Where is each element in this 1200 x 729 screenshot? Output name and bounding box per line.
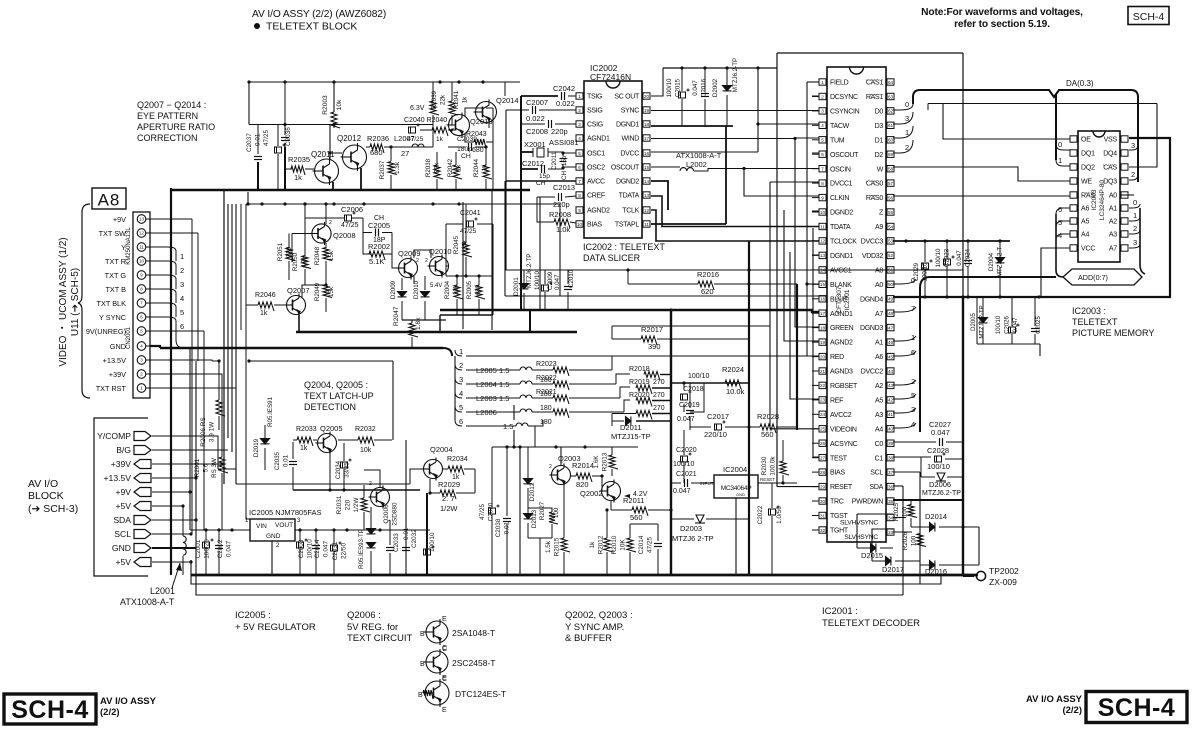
svg-text:2: 2 <box>905 143 909 152</box>
diode D2010 <box>421 292 430 297</box>
svg-text:10: 10 <box>577 222 583 227</box>
wire CLKIN feed <box>744 169 819 197</box>
svg-text:0: 0 <box>905 100 909 109</box>
bus ADD fan 3 <box>893 408 916 413</box>
IC2003 pin DQ4 <box>1121 150 1128 156</box>
svg-text:560: 560 <box>630 513 643 522</box>
IC2001 pin 40 A4 <box>887 426 894 432</box>
svg-text:R2020: R2020 <box>629 392 650 399</box>
svg-text:C2022: C2022 <box>757 505 764 524</box>
wire thick x749 <box>748 241 750 575</box>
IC2001 pin 46 A1 <box>887 339 894 345</box>
IC2003 pin A0 <box>1121 192 1128 198</box>
svg-text:C2034: C2034 <box>335 460 342 479</box>
wire x616 vertical <box>616 374 630 384</box>
svg-text:B: B <box>420 631 425 638</box>
wire rail y447 <box>492 446 638 448</box>
svg-text:SC OUT: SC OUT <box>614 94 640 101</box>
svg-text:2: 2 <box>911 377 915 386</box>
svg-text:TEXT CIRCUIT: TEXT CIRCUIT <box>347 633 412 644</box>
svg-text:44: 44 <box>888 369 894 374</box>
wire Q2014 emitter <box>488 122 490 128</box>
svg-text:A7: A7 <box>1109 246 1117 253</box>
IC2002 pin 13 TDATA <box>643 192 650 198</box>
svg-text:R2047: R2047 <box>393 306 400 326</box>
AV I/O block bracket <box>94 418 148 576</box>
svg-text:C2013: C2013 <box>553 183 575 192</box>
svg-text:1/2W: 1/2W <box>353 497 360 513</box>
svg-text:EYE PATTERN: EYE PATTERN <box>137 111 198 121</box>
svg-text:+5V: +5V <box>115 557 131 567</box>
svg-text:C2020: C2020 <box>676 447 697 454</box>
IC2001 pin 6 OSCOUT <box>819 151 826 157</box>
wire AVCC row <box>506 180 576 182</box>
svg-text:VDD32: VDD32 <box>862 253 883 260</box>
bus DA fan 0 <box>893 104 913 110</box>
svg-text:R2029: R2029 <box>438 480 460 489</box>
bus DA fan DQ3 <box>1129 174 1138 180</box>
svg-text:D2012: D2012 <box>529 482 536 501</box>
capacitor C2023 <box>944 256 955 266</box>
transistor Q2003 <box>550 464 571 487</box>
svg-text:13: 13 <box>139 217 144 222</box>
IC2002 pin 17 WIND <box>643 135 650 141</box>
capacitor C2029 <box>922 260 933 270</box>
svg-text:OSCOUT: OSCOUT <box>611 165 640 172</box>
svg-text:50: 50 <box>888 282 894 287</box>
svg-text:9: 9 <box>578 208 581 213</box>
IC2001 pin 14 AVCC1 <box>819 267 826 273</box>
wire SCL return <box>893 471 920 473</box>
wire +5V to L2001 <box>152 505 183 507</box>
svg-text:R2005: R2005 <box>466 280 473 299</box>
svg-text:AGND2: AGND2 <box>587 208 610 215</box>
svg-text:CSYNCIN: CSYNCIN <box>830 109 860 116</box>
svg-text:D2002: D2002 <box>712 78 719 97</box>
wire x446 q2010 <box>445 224 447 276</box>
svg-text:SCL: SCL <box>114 529 131 539</box>
svg-text:27: 27 <box>401 149 409 158</box>
bus ADD spine left <box>919 288 921 432</box>
IC2003 pin WE <box>1070 178 1077 184</box>
svg-text:22/50: 22/50 <box>341 543 348 559</box>
wire arrows +5V bottom <box>152 561 191 563</box>
svg-text:2: 2 <box>425 258 428 264</box>
svg-text:E: E <box>442 707 447 714</box>
wire conn TXT RST <box>150 387 236 389</box>
wire heavy rail y190 <box>171 189 530 192</box>
wire return y584 <box>191 560 941 584</box>
wire A0 stub <box>1121 194 1134 196</box>
svg-text:6: 6 <box>459 417 463 426</box>
svg-text:TUM: TUM <box>830 137 845 144</box>
IC2003 pin DQ3 <box>1121 178 1128 184</box>
svg-text:17: 17 <box>820 311 826 316</box>
resistor R2046 <box>258 302 274 311</box>
svg-text:1k: 1k <box>589 541 596 549</box>
IC2001 pin 59 D2 <box>887 151 894 157</box>
svg-text:D2001: D2001 <box>513 277 520 296</box>
svg-text:VOUT: VOUT <box>275 522 293 529</box>
IC2003 pin CAS <box>1121 164 1128 170</box>
capacitor C2016 <box>701 94 709 97</box>
svg-text:AV I/O: AV I/O <box>28 478 58 490</box>
transistor Q2004 <box>422 458 443 481</box>
svg-text:48: 48 <box>888 311 894 316</box>
svg-text:SCH-4: SCH-4 <box>1098 694 1176 722</box>
IC2001 pin 42 A5 <box>887 397 894 403</box>
svg-text:1/2W: 1/2W <box>440 504 458 513</box>
svg-text:7: 7 <box>578 179 581 184</box>
capacitor C2001 <box>203 539 214 549</box>
svg-text:R2019: R2019 <box>629 379 650 386</box>
wire connector fan 2 <box>150 261 176 275</box>
wire TSTAPL link <box>651 223 726 225</box>
svg-text:2: 2 <box>1133 224 1137 233</box>
wire bundle x224 <box>223 190 225 484</box>
svg-text:SCL: SCL <box>870 470 883 477</box>
svg-text:390: 390 <box>648 342 661 351</box>
svg-text:+39V: +39V <box>109 370 126 379</box>
svg-text:8: 8 <box>821 181 824 186</box>
svg-text:C2010: C2010 <box>568 269 575 288</box>
wire x246 down <box>246 348 250 519</box>
svg-text:100/10: 100/10 <box>429 532 436 552</box>
wire x493 vertical <box>492 224 494 315</box>
svg-text:C: C <box>442 676 447 683</box>
svg-text:SDA: SDA <box>113 515 131 525</box>
IC2002 pin 18 DGND1 <box>643 121 650 127</box>
svg-text:Q2012: Q2012 <box>337 134 362 143</box>
svg-text:IC2005 NJM7805FAS: IC2005 NJM7805FAS <box>249 508 322 517</box>
wire arrows SDA <box>152 519 196 521</box>
svg-text:R2025: R2025 <box>893 502 900 521</box>
svg-text:60: 60 <box>888 138 894 143</box>
svg-text:+9V: +9V <box>113 215 126 224</box>
wire Q2013 collector <box>465 108 483 117</box>
svg-text:FIELD: FIELD <box>830 80 849 87</box>
wire fan bus vertical <box>176 331 190 348</box>
wire q2002 base <box>601 476 603 491</box>
diode D2004 <box>996 258 1005 263</box>
svg-text:TSIG: TSIG <box>587 94 602 101</box>
diode D2015 <box>871 544 876 553</box>
wire misc pins left <box>812 95 819 97</box>
svg-text:R2033: R2033 <box>296 426 317 433</box>
IC2001 pin 2 DCSYNC <box>819 93 826 99</box>
svg-text:RS 3W: RS 3W <box>211 458 218 478</box>
capacitor C2033b 100/10 <box>424 546 435 556</box>
wire y344 row <box>977 343 1040 345</box>
wire rail y204 <box>248 203 560 205</box>
wire coil fan vertical <box>454 356 456 420</box>
IC2001 pin 30 TRC <box>819 498 826 504</box>
svg-text:1k: 1k <box>300 445 308 452</box>
svg-text:49: 49 <box>888 297 894 302</box>
IC2001 pin 8 DVCC1 <box>819 180 826 186</box>
wire arrows B/G <box>152 449 228 451</box>
svg-text:R2043: R2043 <box>466 131 487 138</box>
wire delay row 3 fan <box>455 378 462 384</box>
wire vertical x246 <box>245 204 247 348</box>
svg-text:15: 15 <box>820 282 826 287</box>
wire Q2008 emitter <box>325 204 327 224</box>
svg-text:C2025: C2025 <box>1036 316 1042 334</box>
svg-text:61: 61 <box>888 123 894 128</box>
svg-text:15p: 15p <box>561 155 568 166</box>
svg-text:15: 15 <box>644 165 650 170</box>
svg-text:A4: A4 <box>1081 232 1089 239</box>
wire x505 vertical <box>504 181 506 296</box>
svg-text:IC2005 :: IC2005 : <box>235 610 271 621</box>
svg-text:10.0k: 10.0k <box>726 387 745 396</box>
svg-text:AVCC1: AVCC1 <box>830 268 852 275</box>
svg-text:13: 13 <box>644 193 650 198</box>
wire row y361 <box>249 360 393 362</box>
svg-text:3: 3 <box>911 405 915 414</box>
connector pin 5 (9V(UNREG)) <box>137 327 146 336</box>
svg-text:TEXT LATCH-UP: TEXT LATCH-UP <box>304 391 374 401</box>
IC2001 pin 32 TGHT <box>819 527 826 533</box>
wire x813 vertical <box>813 228 819 457</box>
wire heavy y332 <box>296 331 577 333</box>
svg-text:TXT B: TXT B <box>105 285 126 294</box>
svg-text:1.3k: 1.3k <box>394 161 401 174</box>
IC2002 pin 8 CREF <box>576 192 583 198</box>
IC2001 pin 38 C1 <box>887 455 894 461</box>
svg-text:TCLOCK: TCLOCK <box>830 239 857 246</box>
svg-text:C2007: C2007 <box>526 98 548 107</box>
svg-text:C2014: C2014 <box>638 535 645 554</box>
IC2001 pin 43 A2 <box>887 382 894 388</box>
connector pin 4 (GND) <box>137 342 146 351</box>
wire top rail y82 <box>249 81 520 83</box>
wire vertical x452 <box>451 82 453 101</box>
svg-text:53: 53 <box>888 239 894 244</box>
IC2001 pin 63 RAS1 <box>887 93 894 99</box>
svg-text:26: 26 <box>820 441 826 446</box>
svg-text:R2038: R2038 <box>425 158 432 177</box>
svg-text:C2018: C2018 <box>683 386 704 393</box>
diode D2019 <box>261 439 270 444</box>
transistor Q2006 <box>369 486 390 509</box>
svg-text:C2003: C2003 <box>298 539 305 558</box>
svg-text:DGND3: DGND3 <box>860 325 883 332</box>
legend transistor DTC124ES-T <box>423 679 449 707</box>
svg-text:Q2011: Q2011 <box>311 150 335 159</box>
transistor Q2008 <box>310 222 331 245</box>
svg-text:C2006: C2006 <box>341 205 363 214</box>
svg-text:1k: 1k <box>436 136 444 143</box>
wire x190 vertical <box>189 348 191 530</box>
wire x620 vertical <box>620 387 630 398</box>
IC2003 pin A3 <box>1121 231 1128 237</box>
IC2001 pin 35 PWRDWN <box>887 498 894 504</box>
wire x979 riser <box>978 527 980 565</box>
wire x784 vertical <box>784 210 819 341</box>
svg-text:C2035: C2035 <box>274 451 281 470</box>
svg-text:220/10: 220/10 <box>704 430 727 439</box>
IC2003 pin A5 <box>1070 218 1077 224</box>
connector pin 1 (TXT RST) <box>137 384 146 393</box>
resistor R2037 <box>388 162 397 175</box>
svg-text:DCSYNC: DCSYNC <box>830 94 858 101</box>
svg-text:C2031: C2031 <box>332 541 339 560</box>
svg-text:4: 4 <box>911 420 915 429</box>
svg-text:D2019: D2019 <box>253 438 260 457</box>
bus ADD fan 7 <box>893 307 916 312</box>
svg-text:MTZJ15-TP: MTZJ15-TP <box>611 432 651 441</box>
svg-text:GND: GND <box>110 342 126 351</box>
wire DGND4 thick y297 <box>893 138 1170 297</box>
svg-text:AV I/O ASSY: AV I/O ASSY <box>1026 694 1083 705</box>
svg-text:R2044: R2044 <box>473 158 480 177</box>
connector arrow +5V <box>134 502 151 511</box>
svg-text:A0: A0 <box>875 282 883 289</box>
wire arrows Y/COMP <box>152 436 218 469</box>
svg-text:A5: A5 <box>1081 219 1089 226</box>
bus DA fan 3 <box>893 112 913 124</box>
wire q2009 base <box>392 254 399 268</box>
svg-text:100/10: 100/10 <box>688 373 710 380</box>
IC2001 pin 34 stub <box>887 514 894 520</box>
svg-text:A1: A1 <box>875 340 883 347</box>
wire y490 row <box>293 489 420 491</box>
wire rail y530 right <box>295 529 430 531</box>
IC2002 pin 4 AGND1 <box>576 135 583 141</box>
svg-text:C2011: C2011 <box>551 151 558 170</box>
svg-text:SCH-4: SCH-4 <box>11 696 89 724</box>
bus ADD fan 1 <box>893 336 916 341</box>
svg-text:1k: 1k <box>462 96 469 103</box>
svg-text:C2017: C2017 <box>707 412 729 421</box>
svg-text:(➔ SCH-3): (➔ SCH-3) <box>28 503 78 515</box>
IC2001 pin 9 CLKIN <box>819 194 826 200</box>
svg-text:+ 5V REGULATOR: + 5V REGULATOR <box>235 622 316 633</box>
svg-text:14: 14 <box>644 179 650 184</box>
capacitor C2025 <box>1031 329 1039 332</box>
svg-text:100/10: 100/10 <box>935 248 942 267</box>
svg-text:PWRDWN: PWRDWN <box>852 499 883 506</box>
svg-text:CSIG: CSIG <box>587 122 603 129</box>
svg-text:30: 30 <box>820 499 826 504</box>
svg-text:0.022: 0.022 <box>556 99 575 108</box>
svg-text:23: 23 <box>820 398 826 403</box>
wire WIND row <box>651 138 795 140</box>
svg-text:38: 38 <box>888 456 894 461</box>
svg-text:PICTURE MEMORY: PICTURE MEMORY <box>1072 328 1154 338</box>
svg-text:59: 59 <box>888 152 894 157</box>
IC2001 pin 55 Z <box>887 209 894 215</box>
svg-text:4: 4 <box>459 389 463 398</box>
svg-text:R2001: R2001 <box>194 458 201 477</box>
svg-text:1: 1 <box>1133 211 1137 220</box>
connector arrow Y/COMP <box>134 432 151 441</box>
svg-text:7: 7 <box>821 167 824 172</box>
svg-text:2: 2 <box>578 108 581 113</box>
diode D2008 D2007 <box>367 529 376 534</box>
svg-text:AV I/O ASSY: AV I/O ASSY <box>100 696 157 707</box>
wire connector fan 1 <box>150 247 176 261</box>
svg-text:5: 5 <box>911 391 915 400</box>
diode D2016 <box>930 561 935 570</box>
svg-text:D3: D3 <box>875 123 884 130</box>
svg-text:1: 1 <box>905 128 909 137</box>
IC2002 pin 6 OSC2 <box>576 164 583 170</box>
svg-text:220p: 220p <box>551 127 568 136</box>
svg-text:R2050: R2050 <box>292 252 299 271</box>
IC2001 pin 10 DGND2 <box>819 209 826 215</box>
svg-text:0.01: 0.01 <box>403 527 410 540</box>
svg-text:R2024: R2024 <box>722 365 744 374</box>
svg-text:0: 0 <box>1058 140 1062 149</box>
IC2001 pin 23 REF <box>819 397 826 403</box>
svg-text:SDA: SDA <box>870 484 884 491</box>
capacitor C2026 <box>1009 324 1020 334</box>
svg-text:16: 16 <box>820 297 826 302</box>
capacitor C2015 <box>679 89 690 99</box>
svg-text:BIAS: BIAS <box>830 470 845 477</box>
svg-text:TSTAPL: TSTAPL <box>615 222 640 229</box>
svg-text:5: 5 <box>459 403 463 412</box>
bus DA(0.3) spine <box>913 90 1138 182</box>
transistor Q2009 <box>397 257 418 280</box>
svg-text:SSIG: SSIG <box>587 108 603 115</box>
wire DVCC3 row y241 <box>893 240 1010 242</box>
svg-text:R2051: R2051 <box>277 242 284 261</box>
svg-text:LC32464P-80: LC32464P-80 <box>1099 180 1106 220</box>
transistor Q2014 <box>474 100 497 125</box>
transistor Q2012 <box>341 143 367 171</box>
IC2001 pin 13 DGND1 <box>819 252 826 258</box>
bus ADD IC2003 left fan <box>1055 214 1057 270</box>
wire vertical x249 <box>248 82 250 125</box>
svg-text:GND: GND <box>736 492 745 497</box>
diode D2012 <box>524 479 533 484</box>
top-right SCH-4 box <box>1128 7 1169 25</box>
svg-text:Q2007 − Q2014 :: Q2007 − Q2014 : <box>137 100 206 110</box>
svg-text:Q2004: Q2004 <box>430 445 453 454</box>
IC2001 pin 4 TACW <box>819 122 826 128</box>
svg-text:40: 40 <box>888 427 894 432</box>
svg-text:C: C <box>442 646 447 653</box>
svg-text:GND: GND <box>112 543 131 553</box>
svg-text:R2048: R2048 <box>314 246 321 265</box>
svg-text:3: 3 <box>821 109 824 114</box>
svg-text:IC2003 :: IC2003 : <box>1072 306 1106 316</box>
svg-text:220p: 220p <box>553 200 570 209</box>
IC2001 pin 48 A7 <box>887 310 894 316</box>
svg-text:3: 3 <box>459 375 463 384</box>
svg-text:560: 560 <box>761 430 774 439</box>
svg-text:100.0k: 100.0k <box>770 456 777 476</box>
bus DA fan DQ1 <box>1056 144 1070 150</box>
svg-text:BLOCK: BLOCK <box>28 490 64 502</box>
svg-text:BLUE: BLUE <box>830 296 848 303</box>
svg-text:11: 11 <box>139 245 144 250</box>
svg-text:6: 6 <box>911 348 915 357</box>
svg-text:100/10: 100/10 <box>996 315 1002 334</box>
svg-text:2: 2 <box>549 464 552 470</box>
svg-text:DTC124ES-T: DTC124ES-T <box>455 689 506 699</box>
svg-text:A0: A0 <box>1109 193 1117 200</box>
svg-text:R2028: R2028 <box>757 412 779 421</box>
svg-text:Q2002, Q2003 :: Q2002, Q2003 : <box>565 610 633 621</box>
transistor Q2007 <box>285 294 306 317</box>
svg-text:5.1K: 5.1K <box>369 257 384 266</box>
svg-text:27: 27 <box>820 456 826 461</box>
svg-text:32: 32 <box>820 528 826 533</box>
